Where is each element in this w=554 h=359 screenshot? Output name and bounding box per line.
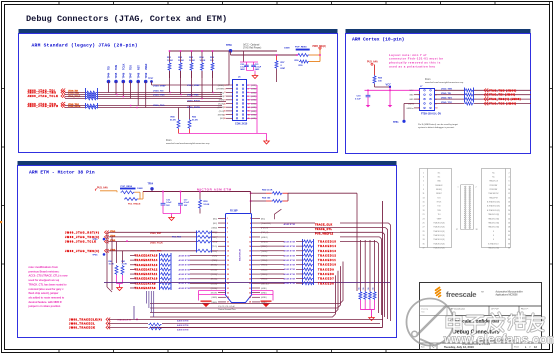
svg-text:TRACECLK(S): TRACECLK(S) bbox=[433, 226, 445, 229]
svg-text:4: 4 bbox=[508, 176, 509, 178]
svg-text:18: 18 bbox=[249, 255, 251, 257]
svg-text:37: 37 bbox=[422, 248, 424, 250]
svg-text:JTAG_TMS: JTAG_TMS bbox=[150, 250, 162, 253]
svg-text:JTAG_RTCK: JTAG_RTCK bbox=[187, 100, 200, 103]
svg-text:TRACEDATA14: TRACEDATA14 bbox=[135, 259, 158, 262]
svg-text:TP48: TP48 bbox=[137, 72, 140, 78]
svg-text:12: 12 bbox=[249, 241, 251, 243]
svg-text:7: 7 bbox=[419, 103, 420, 105]
svg-text:FIUO: P:: FIUO: P: bbox=[521, 309, 529, 311]
svg-text:22: 22 bbox=[508, 214, 510, 216]
svg-text:PWR_SW(2): PWR_SW(2) bbox=[313, 46, 326, 48]
svg-text:TRACECLK(S): TRACECLK(S) bbox=[488, 247, 500, 250]
svg-text:28: 28 bbox=[508, 227, 510, 229]
svg-text:(TMS): (TMS) bbox=[219, 100, 225, 102]
svg-text:TRACK_CTL has been routed to: TRACK_CTL has been routed to bbox=[29, 283, 67, 286]
svg-text:ASM ETM: ASM ETM bbox=[179, 264, 191, 267]
svg-text:JTAG_VREF: JTAG_VREF bbox=[153, 85, 166, 88]
svg-text:3: 3 bbox=[419, 95, 420, 97]
svg-text:JTAG_TDI (JM60): JTAG_TDI (JM60) bbox=[489, 94, 516, 97]
svg-text:14: 14 bbox=[508, 197, 510, 199]
svg-text:ARM Cortex (10-pin): ARM Cortex (10-pin) bbox=[352, 37, 404, 43]
svg-text:POP_RES0: POP_RES0 bbox=[295, 47, 307, 49]
svg-text:ASM ETM: ASM ETM bbox=[284, 268, 296, 271]
svg-text:51: 51 bbox=[363, 288, 365, 290]
svg-text:TDI: TDI bbox=[108, 66, 111, 70]
svg-text:(GND): (GND) bbox=[251, 118, 257, 120]
svg-text:TRACED13: TRACED13 bbox=[318, 250, 337, 253]
svg-text:used for else(push acc eq: used for else(push acc eq bbox=[29, 279, 60, 282]
svg-text:JM60_JTAG_TCLK: JM60_JTAG_TCLK bbox=[28, 95, 59, 98]
svg-text:16: 16 bbox=[248, 111, 250, 113]
svg-text:TRACED6: TRACED6 bbox=[318, 282, 334, 285]
svg-text:ASM ETM: ASM ETM bbox=[179, 273, 191, 276]
svg-text:17: 17 bbox=[422, 206, 424, 208]
svg-text:38: 38 bbox=[476, 229, 478, 231]
svg-text:22: 22 bbox=[249, 265, 251, 267]
svg-text:JTAG_TDO: JTAG_TDO bbox=[441, 97, 452, 100]
svg-text:A TRACECLK: A TRACECLK bbox=[488, 242, 499, 245]
svg-text:(GND): (GND) bbox=[251, 111, 257, 113]
svg-text:12: 12 bbox=[248, 103, 250, 105]
svg-text:Automotive Microcontroller: Automotive Microcontroller bbox=[496, 290, 523, 293]
svg-text:JTAG_TDI: JTAG_TDI bbox=[441, 92, 451, 95]
svg-text:9: 9 bbox=[225, 100, 226, 102]
svg-text:Debug Connectors (JTAG, Cortex: Debug Connectors (JTAG, Cortex and ETM) bbox=[26, 14, 227, 24]
svg-text:JTAG_TMS: JTAG_TMS bbox=[153, 94, 165, 97]
svg-text:Pin 9 (GNDDetect) can be used: Pin 9 (GNDDetect) can be used by target bbox=[418, 123, 458, 126]
svg-text:used as a polarization key: used as a polarization key bbox=[389, 65, 435, 69]
svg-text:R54 100: R54 100 bbox=[262, 196, 271, 199]
svg-text:(GND): (GND) bbox=[212, 297, 218, 299]
svg-text:ASM ETM: ASM ETM bbox=[179, 278, 191, 281]
svg-text:TRACED14: TRACED14 bbox=[318, 245, 337, 248]
svg-text:TP51: TP51 bbox=[393, 122, 399, 124]
svg-text:35: 35 bbox=[422, 243, 424, 245]
svg-text:TRACESYNC: TRACESYNC bbox=[488, 192, 499, 195]
svg-text:JTAG: JTAG bbox=[110, 234, 116, 237]
svg-text:JTAG_TCK: JTAG_TCK bbox=[441, 101, 452, 104]
svg-text:23: 23 bbox=[227, 269, 229, 271]
svg-text:23: 23 bbox=[422, 218, 424, 220]
svg-text:20: 20 bbox=[248, 118, 250, 120]
svg-text:www.keil.com/coresight/connect: www.keil.com/coresight/connectors.asp bbox=[425, 81, 464, 84]
svg-text:19: 19 bbox=[227, 260, 229, 262]
svg-text:12: 12 bbox=[508, 193, 510, 195]
svg-text:TRACED9: TRACED9 bbox=[318, 268, 334, 271]
svg-text:TP47: TP47 bbox=[130, 72, 133, 78]
svg-text:10.0K: 10.0K bbox=[200, 60, 206, 62]
svg-text:38: 38 bbox=[508, 248, 510, 250]
svg-text:DBGACK: DBGACK bbox=[435, 184, 443, 187]
svg-text:R55 51.0K: R55 51.0K bbox=[262, 189, 273, 191]
svg-text:TP50: TP50 bbox=[226, 44, 232, 47]
svg-text:TRACEDATA8: TRACEDATA8 bbox=[135, 287, 156, 290]
svg-text:16: 16 bbox=[508, 202, 510, 204]
svg-text:TRACEDATA12: TRACEDATA12 bbox=[135, 268, 158, 271]
svg-text:(NC): (NC) bbox=[213, 218, 217, 220]
svg-text:POP_RES0: POP_RES0 bbox=[121, 186, 133, 188]
svg-text:TRACED12: TRACED12 bbox=[318, 254, 337, 257]
svg-text:TRACE_CTL: TRACE_CTL bbox=[315, 228, 332, 231]
svg-text:ARM ETM - Mictor 38 Pin: ARM ETM - Mictor 38 Pin bbox=[29, 170, 95, 176]
svg-text:13: 13 bbox=[227, 246, 229, 248]
svg-text:16: 16 bbox=[249, 251, 251, 253]
svg-text:JTAG_TCLK: JTAG_TCLK bbox=[150, 242, 163, 245]
svg-text:JM60_TRACECK: JM60_TRACECK bbox=[69, 327, 95, 330]
svg-text:TRACECLK: TRACECLK bbox=[489, 180, 499, 183]
svg-text:TRACEDATA11: TRACEDATA11 bbox=[135, 273, 158, 276]
svg-text:10: 10 bbox=[508, 189, 510, 191]
svg-text:TDO: TDO bbox=[130, 65, 133, 70]
svg-text:(GND): (GND) bbox=[261, 288, 267, 290]
svg-text:36: 36 bbox=[249, 297, 251, 299]
svg-text:31: 31 bbox=[422, 235, 424, 237]
svg-text:2: 2 bbox=[476, 187, 477, 189]
svg-text:6: 6 bbox=[250, 227, 251, 229]
svg-text:TRACE_CLK: TRACE_CLK bbox=[315, 223, 333, 226]
svg-text:ASM ETM: ASM ETM bbox=[284, 240, 296, 243]
svg-text:system to detect debugger is p: system to detect debugger is present. bbox=[418, 126, 455, 129]
svg-text:PIPESTAT: PIPESTAT bbox=[490, 184, 498, 187]
svg-text:(VCC - Optional: (VCC - Optional bbox=[243, 44, 260, 47]
svg-text:JTAG Rail Power): JTAG Rail Power) bbox=[243, 47, 261, 50]
svg-text:TP46: TP46 bbox=[122, 72, 125, 78]
svg-text:13: 13 bbox=[422, 197, 424, 199]
svg-text:6: 6 bbox=[508, 181, 509, 183]
svg-text:36: 36 bbox=[508, 243, 510, 245]
svg-text:100M: 100M bbox=[137, 188, 143, 190]
svg-text:TP45: TP45 bbox=[115, 72, 118, 78]
svg-text:TRACEDATA15: TRACEDATA15 bbox=[135, 255, 158, 258]
svg-text:(RSTB): (RSTB) bbox=[218, 115, 225, 117]
svg-text:34: 34 bbox=[249, 291, 251, 294]
svg-text:31: 31 bbox=[227, 288, 229, 290]
svg-text:A TRACECLK(S): A TRACECLK(S) bbox=[487, 201, 500, 204]
svg-text:www.elecfans.com: www.elecfans.com bbox=[443, 333, 554, 347]
svg-text:7: 7 bbox=[423, 185, 424, 187]
svg-text:ASM ETM: ASM ETM bbox=[284, 282, 296, 285]
svg-text:27: 27 bbox=[422, 227, 424, 229]
svg-text:34: 34 bbox=[508, 239, 510, 241]
svg-text:(GND): (GND) bbox=[212, 228, 218, 230]
svg-text:8: 8 bbox=[508, 185, 509, 187]
svg-text:www.keil.com/oms/memsight/conn: www.keil.com/oms/memsight/connectors.asp bbox=[166, 142, 210, 145]
svg-text:TRACECLK(S): TRACECLK(S) bbox=[488, 217, 500, 220]
svg-text:25: 25 bbox=[422, 222, 424, 224]
svg-text:desired feature. with 0805 R: desired feature. with 0805 R bbox=[29, 301, 62, 304]
svg-text:ASM ETM: ASM ETM bbox=[284, 273, 296, 276]
svg-text:TRACECLK(S): TRACECLK(S) bbox=[433, 238, 445, 241]
svg-text:24: 24 bbox=[249, 268, 251, 271]
svg-text:PU3_A4A: PU3_A4A bbox=[97, 186, 108, 189]
svg-text:(TDO): (TDO) bbox=[212, 246, 218, 248]
svg-text:3: 3 bbox=[423, 176, 424, 178]
svg-text:flash chip select), jumper: flash chip select), jumper bbox=[29, 292, 59, 295]
svg-text:29: 29 bbox=[422, 231, 424, 233]
svg-text:TP57: TP57 bbox=[148, 78, 154, 80]
svg-text:0.1uF: 0.1uF bbox=[355, 99, 361, 101]
svg-text:TRACED11: TRACED11 bbox=[318, 259, 336, 262]
svg-text:3: 3 bbox=[225, 89, 226, 91]
svg-text:TRACED10: TRACED10 bbox=[318, 264, 337, 267]
svg-text:JTAG_TCK (JM60): JTAG_TCK (JM60) bbox=[489, 103, 517, 106]
svg-text:VCC: VCC bbox=[410, 90, 415, 92]
svg-text:5: 5 bbox=[225, 92, 226, 94]
svg-text:33: 33 bbox=[227, 292, 229, 294]
svg-text:TRACED8: TRACED8 bbox=[318, 273, 334, 276]
svg-text:33: 33 bbox=[422, 239, 424, 241]
svg-text:TRACED15: TRACED15 bbox=[318, 241, 337, 244]
svg-text:TP55: TP55 bbox=[92, 239, 98, 241]
svg-text:100M: 100M bbox=[284, 47, 290, 49]
svg-text:JM60_JTAG_RST(4): JM60_JTAG_RST(4) bbox=[65, 231, 100, 234]
svg-text:1: 1 bbox=[423, 172, 424, 174]
svg-text:51.0K: 51.0K bbox=[170, 120, 176, 122]
svg-text:(NC): (NC) bbox=[220, 92, 224, 94]
svg-text:ASM ETM: ASM ETM bbox=[284, 278, 296, 281]
svg-text:32: 32 bbox=[249, 288, 251, 290]
svg-text:jumper is in share position: jumper is in share position bbox=[28, 305, 61, 308]
svg-text:1: 1 bbox=[225, 85, 226, 87]
svg-text:(VTREF): (VTREF) bbox=[217, 89, 225, 91]
svg-text:2: 2 bbox=[508, 172, 509, 174]
svg-text:9: 9 bbox=[419, 108, 420, 110]
svg-text:24: 24 bbox=[508, 218, 510, 220]
svg-text:(GND): (GND) bbox=[251, 96, 257, 98]
svg-text:CP: FCP:: CP: FCP: bbox=[491, 309, 499, 311]
svg-text:TRACECLK(S): TRACECLK(S) bbox=[433, 242, 445, 245]
svg-text:6: 6 bbox=[248, 92, 249, 94]
svg-text:GND: GND bbox=[409, 99, 414, 101]
svg-text:(NC): (NC) bbox=[213, 223, 217, 225]
svg-text:TCLK: TCLK bbox=[122, 63, 125, 70]
svg-text:PIPESTAT: PIPESTAT bbox=[490, 188, 498, 191]
svg-text:ASM ETM: ASM ETM bbox=[179, 268, 191, 271]
svg-text:A TRACECLK(S): A TRACECLK(S) bbox=[487, 205, 500, 208]
svg-text:Applications MC9S08: Applications MC9S08 bbox=[496, 294, 519, 297]
svg-text:10.0K: 10.0K bbox=[189, 60, 195, 62]
svg-text:ASM ETM: ASM ETM bbox=[179, 287, 191, 290]
svg-text:remoted (also used for gary c: remoted (also used for gary c bbox=[29, 288, 65, 291]
svg-text:FTSH-105-01-L-DV: FTSH-105-01-L-DV bbox=[421, 113, 442, 115]
svg-text:JTAG_TMS: JTAG_TMS bbox=[187, 93, 199, 96]
svg-text:10: 10 bbox=[248, 100, 250, 102]
svg-text:VREF: VREF bbox=[437, 218, 442, 220]
svg-text:als added to route removed to: als added to route removed to bbox=[29, 296, 65, 299]
svg-text:TRACEDATA10: TRACEDATA10 bbox=[135, 278, 158, 281]
svg-text:(TDO): (TDO) bbox=[219, 111, 225, 113]
svg-text:(GND): (GND) bbox=[251, 107, 257, 109]
svg-text:TRACECLK(S): TRACECLK(S) bbox=[488, 226, 500, 229]
svg-text:1: 1 bbox=[458, 187, 459, 189]
svg-text:TRACECLK(S): TRACECLK(S) bbox=[433, 230, 445, 233]
svg-text:1: 1 bbox=[419, 90, 420, 92]
svg-text:JM60_JTAG_TMS(4): JM60_JTAG_TMS(4) bbox=[65, 250, 100, 253]
svg-text:(TraceCLK): (TraceCLK) bbox=[261, 222, 271, 225]
svg-text:3: 3 bbox=[227, 223, 228, 225]
svg-text:32: 32 bbox=[508, 235, 510, 237]
svg-text:7: 7 bbox=[227, 232, 228, 234]
svg-text:30: 30 bbox=[249, 283, 251, 285]
svg-text:RST: RST bbox=[137, 65, 140, 70]
svg-text:TRACEPKT: TRACEPKT bbox=[489, 196, 498, 199]
svg-text:1: 1 bbox=[227, 218, 228, 220]
svg-text:19: 19 bbox=[422, 210, 424, 212]
svg-text:ASM ETM: ASM ETM bbox=[177, 329, 189, 332]
svg-text:51.0K: 51.0K bbox=[192, 120, 198, 122]
svg-text:JTAG: JTAG bbox=[110, 248, 116, 251]
svg-text:PU3_VREF12: PU3_VREF12 bbox=[315, 234, 334, 236]
svg-text:15: 15 bbox=[422, 202, 424, 204]
svg-text:From: From bbox=[425, 78, 430, 81]
svg-text:28: 28 bbox=[249, 279, 251, 281]
svg-text:TRACECLK(S): TRACECLK(S) bbox=[433, 247, 445, 250]
svg-text:VCC: VCC bbox=[386, 82, 392, 86]
svg-text:(TCLK): (TCLK) bbox=[218, 103, 224, 105]
svg-text:TRACEDATA13: TRACEDATA13 bbox=[135, 264, 158, 267]
svg-text:(GND): (GND) bbox=[251, 85, 257, 87]
svg-text:5: 5 bbox=[423, 181, 424, 183]
svg-text:PU3_A4A: PU3_A4A bbox=[367, 60, 378, 63]
svg-text:(NC): (NC) bbox=[220, 118, 224, 120]
svg-text:TP44: TP44 bbox=[108, 72, 111, 78]
svg-text:14: 14 bbox=[248, 106, 250, 109]
svg-text:P2 38P: P2 38P bbox=[230, 211, 238, 213]
svg-text:PU3_TDO: PU3_TDO bbox=[172, 236, 182, 238]
svg-text:2: 2 bbox=[248, 85, 249, 87]
svg-text:PU3_TRACE: PU3_TRACE bbox=[128, 202, 141, 205]
svg-text:(GND): (GND) bbox=[251, 115, 257, 117]
svg-text:37: 37 bbox=[456, 229, 458, 231]
svg-text:(GND): (GND) bbox=[251, 92, 257, 94]
svg-text:35: 35 bbox=[227, 297, 229, 299]
svg-text:ASM ETM: ASM ETM bbox=[284, 259, 296, 262]
svg-text:TRACED7: TRACED7 bbox=[318, 278, 334, 281]
svg-text:26: 26 bbox=[508, 222, 510, 224]
svg-text:ASM ETM: ASM ETM bbox=[179, 254, 191, 257]
svg-text:JTAG: JTAG bbox=[110, 239, 116, 242]
svg-text:(NC): (NC) bbox=[261, 218, 265, 220]
svg-text:18: 18 bbox=[248, 114, 250, 116]
svg-text:11: 11 bbox=[227, 241, 229, 243]
svg-text:30: 30 bbox=[508, 231, 510, 233]
svg-text:51: 51 bbox=[358, 288, 360, 290]
svg-text:RESET: RESET bbox=[436, 193, 442, 195]
svg-text:TRACECLK(S): TRACECLK(S) bbox=[433, 234, 445, 237]
svg-text:(GND): (GND) bbox=[251, 100, 257, 102]
svg-text:(RTCK): (RTCK) bbox=[218, 107, 225, 109]
svg-text:TP54: TP54 bbox=[148, 183, 154, 186]
svg-text:11: 11 bbox=[423, 193, 425, 195]
svg-text:(GND1): (GND1) bbox=[261, 237, 268, 239]
svg-text:9: 9 bbox=[423, 189, 424, 191]
svg-text:ASM ETM: ASM ETM bbox=[284, 223, 296, 226]
svg-text:29: 29 bbox=[227, 283, 229, 285]
svg-text:JTAG_RSTB: JTAG_RSTB bbox=[187, 106, 200, 109]
svg-text:JTAG_TMS (JM60): JTAG_TMS (JM60) bbox=[489, 89, 517, 92]
svg-text:10.0K: 10.0K bbox=[167, 60, 173, 62]
svg-text:4: 4 bbox=[248, 88, 249, 91]
svg-text:JM60_JTAG_TMS: JM60_JTAG_TMS bbox=[28, 92, 57, 95]
svg-text:20: 20 bbox=[249, 260, 251, 262]
svg-text:JTAG_VREF: JTAG_VREF bbox=[187, 84, 200, 87]
svg-text:JTAG_TDI: JTAG_TDI bbox=[153, 89, 164, 92]
svg-text:JTAG_RST: JTAG_RST bbox=[150, 232, 162, 235]
svg-text:JTAG: JTAG bbox=[110, 230, 116, 233]
svg-text:JTAG_TDO(4) (JM60): JTAG_TDO(4) (JM60) bbox=[489, 98, 522, 101]
svg-text:10.0K: 10.0K bbox=[178, 60, 184, 62]
svg-text:ASM ETM: ASM ETM bbox=[284, 245, 296, 248]
svg-text:10: 10 bbox=[249, 237, 251, 239]
svg-text:Centre Ground Pins: Centre Ground Pins bbox=[218, 308, 236, 311]
svg-text:51.0K: 51.0K bbox=[204, 204, 210, 206]
svg-text:GNDDet: GNDDet bbox=[406, 107, 414, 110]
svg-text:MICTOR ASM ETM: MICTOR ASM ETM bbox=[197, 188, 232, 192]
svg-text:8: 8 bbox=[250, 232, 251, 234]
svg-text:ICAP Classification: ICAP Classification bbox=[449, 308, 465, 311]
svg-text:MICTOR-38: MICTOR-38 bbox=[240, 248, 242, 261]
svg-text:GND: GND bbox=[409, 95, 414, 97]
svg-text:10.0K: 10.0K bbox=[109, 264, 115, 266]
svg-text:10: 10 bbox=[435, 108, 437, 110]
svg-text:note: modifications from: note: modifications from bbox=[29, 266, 59, 269]
svg-text:(GND): (GND) bbox=[251, 103, 257, 105]
svg-text:(TDI): (TDI) bbox=[220, 96, 225, 98]
svg-text:(VREF): (VREF) bbox=[218, 85, 225, 87]
svg-text:9: 9 bbox=[227, 237, 228, 239]
svg-text:DBGRQ: DBGRQ bbox=[436, 189, 443, 191]
svg-text:25: 25 bbox=[227, 274, 229, 276]
svg-text:27: 27 bbox=[227, 279, 229, 281]
svg-text:(GND): (GND) bbox=[251, 89, 257, 91]
svg-text:TRACECLK(S): TRACECLK(S) bbox=[488, 213, 500, 216]
svg-text:From: From bbox=[166, 139, 171, 142]
svg-text:15: 15 bbox=[227, 251, 229, 253]
svg-text:Size: Size bbox=[421, 347, 425, 349]
svg-text:A TRACECLK(S): A TRACECLK(S) bbox=[487, 209, 500, 212]
svg-text:JM60_TRACECLK(4): JM60_TRACECLK(4) bbox=[69, 319, 102, 322]
svg-text:4: 4 bbox=[250, 222, 251, 225]
svg-text:JTAG_TDO: JTAG_TDO bbox=[153, 104, 165, 107]
svg-text:ASM ETM: ASM ETM bbox=[284, 264, 296, 267]
svg-text:CON_2X10: CON_2X10 bbox=[235, 123, 248, 126]
svg-text:51: 51 bbox=[368, 288, 370, 290]
svg-text:ASM ETM: ASM ETM bbox=[177, 324, 189, 327]
svg-text:20: 20 bbox=[508, 210, 510, 212]
svg-text:TMS: TMS bbox=[115, 65, 118, 70]
svg-text:ARM Standard (legacy) JTAG (20: ARM Standard (legacy) JTAG (20-pin) bbox=[32, 43, 138, 49]
svg-text:JM60_JTAG_RSTB: JM60_JTAG_RSTB bbox=[28, 105, 59, 108]
svg-text:51: 51 bbox=[373, 288, 375, 290]
svg-text:previous Board revisions:: previous Board revisions: bbox=[29, 270, 60, 273]
svg-text:TRACECLK(S): TRACECLK(S) bbox=[433, 221, 445, 224]
svg-text:freescale: freescale bbox=[446, 290, 476, 299]
svg-text:TP56: TP56 bbox=[92, 254, 98, 256]
svg-text:DNP: DNP bbox=[281, 68, 286, 70]
svg-text:8: 8 bbox=[248, 96, 249, 98]
svg-text:TRACECLK W: TRACECLK W bbox=[117, 318, 131, 321]
svg-text:TRACECLK(S): TRACECLK(S) bbox=[488, 221, 500, 224]
svg-text:ASM ETM: ASM ETM bbox=[284, 250, 296, 253]
svg-text:2: 2 bbox=[250, 218, 251, 220]
svg-text:ASM ETM: ASM ETM bbox=[179, 259, 191, 262]
svg-text:26: 26 bbox=[249, 274, 251, 276]
svg-text:ASM ETM: ASM ETM bbox=[177, 320, 189, 323]
svg-text:18: 18 bbox=[508, 206, 510, 208]
svg-text:7: 7 bbox=[225, 96, 226, 98]
svg-text:JM60_TRACECL: JM60_TRACECL bbox=[69, 323, 95, 326]
